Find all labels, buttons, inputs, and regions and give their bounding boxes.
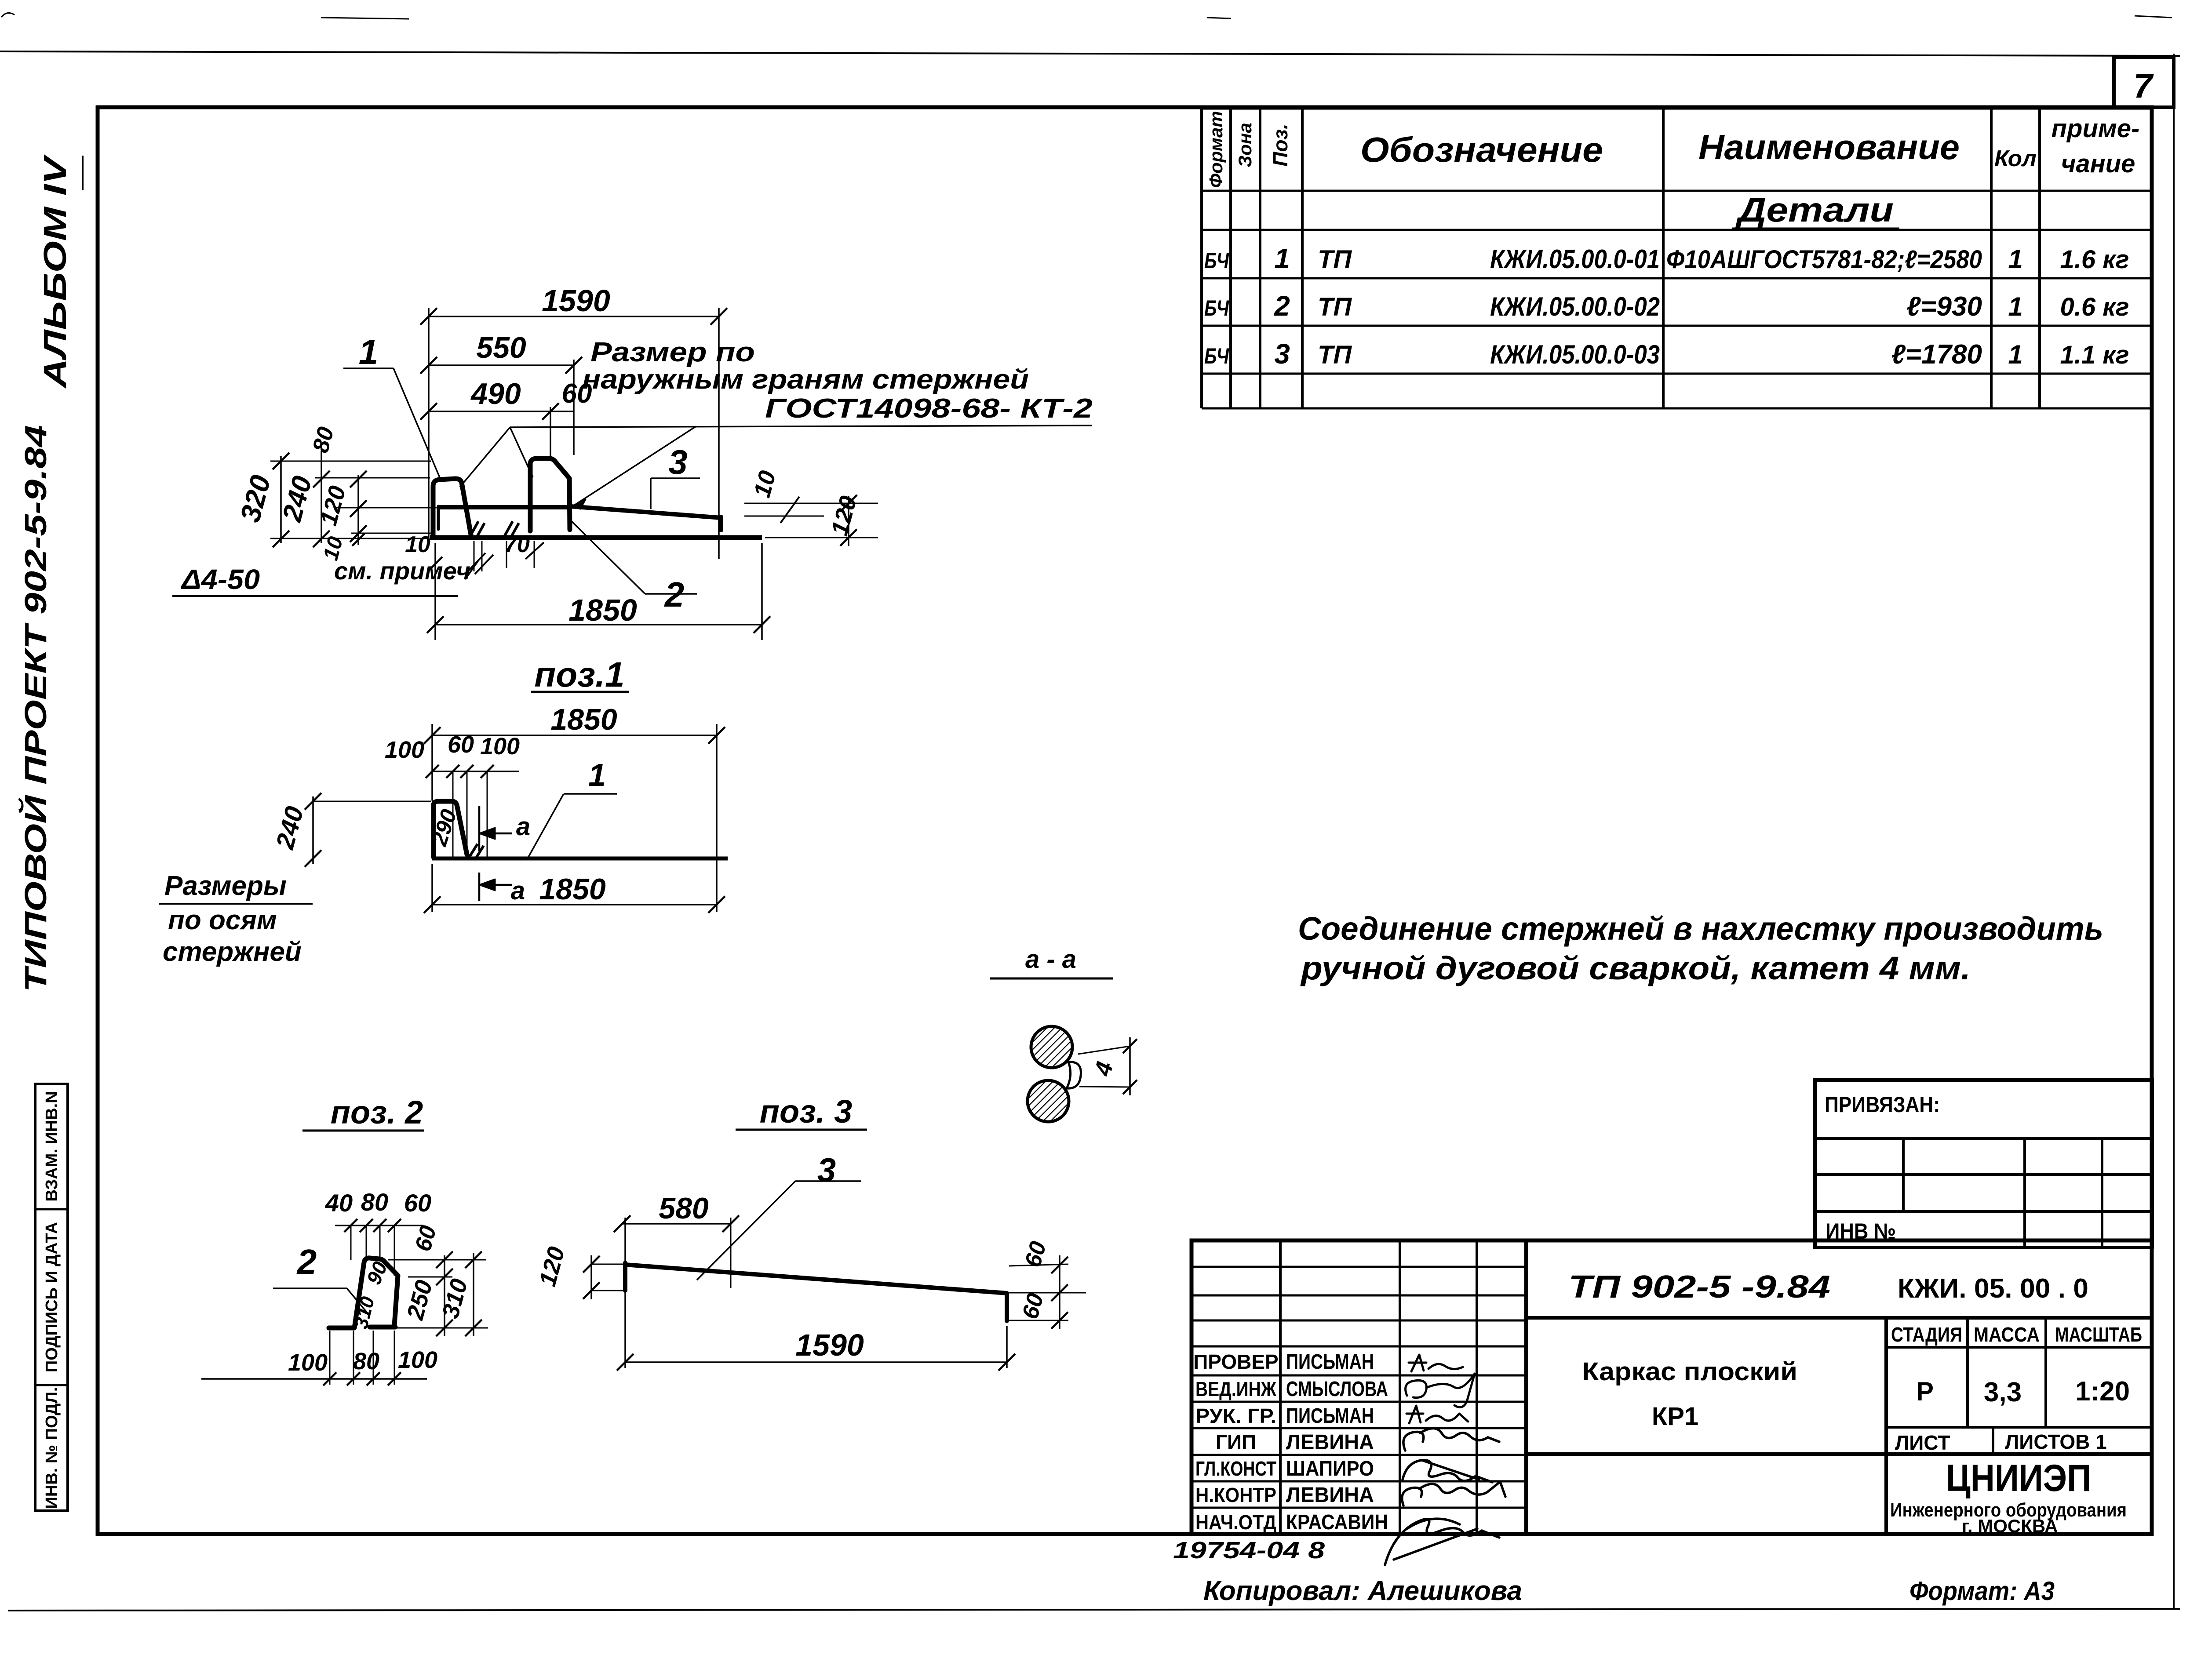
svg-text:ПРОВЕР: ПРОВЕР	[1193, 1350, 1279, 1373]
svg-text:ПРИВЯЗАН:: ПРИВЯЗАН:	[1825, 1092, 1940, 1117]
svg-text:100: 100	[398, 1347, 437, 1373]
svg-text:1850: 1850	[550, 703, 617, 736]
svg-text:Формат: Формат	[1206, 111, 1226, 188]
svg-text:КЖИ.05.00.0-02: КЖИ.05.00.0-02	[1490, 292, 1660, 321]
svg-text:1.6 кг: 1.6 кг	[2060, 245, 2129, 274]
svg-text:Δ4-50: Δ4-50	[181, 564, 260, 595]
svg-text:7: 7	[2133, 66, 2154, 105]
svg-text:Р: Р	[1916, 1377, 1934, 1406]
svg-text:БЧ: БЧ	[1204, 248, 1229, 273]
svg-text:СМЫСЛОВА: СМЫСЛОВА	[1286, 1378, 1388, 1401]
svg-text:стержней: стержней	[163, 937, 302, 967]
svg-text:1850: 1850	[568, 593, 637, 627]
svg-text:Поз.: Поз.	[1269, 124, 1292, 166]
svg-text:КЖИ.05.00.0-01: КЖИ.05.00.0-01	[1490, 244, 1660, 274]
svg-text:3: 3	[817, 1152, 836, 1189]
svg-text:100: 100	[288, 1349, 328, 1376]
svg-text:Обозначение: Обозначение	[1360, 130, 1603, 169]
svg-text:КРАСАВИН: КРАСАВИН	[1286, 1511, 1388, 1534]
svg-text:МАСШТАБ: МАСШТАБ	[2055, 1323, 2142, 1346]
svg-text:см. примеч: см. примеч	[334, 557, 470, 585]
svg-text:а: а	[511, 876, 525, 905]
svg-text:КЖИ. 05. 00 . 0: КЖИ. 05. 00 . 0	[1898, 1273, 2088, 1304]
svg-text:1: 1	[1274, 243, 1290, 274]
svg-text:ЛЕВИНА: ЛЕВИНА	[1286, 1431, 1374, 1454]
svg-text:1: 1	[588, 758, 606, 793]
svg-text:80: 80	[353, 1348, 379, 1375]
svg-text:10: 10	[405, 532, 430, 557]
svg-text:19754-04 8: 19754-04 8	[1173, 1537, 1325, 1564]
svg-text:0.6 кг: 0.6 кг	[2060, 293, 2129, 321]
svg-text:МАССА: МАССА	[1974, 1323, 2040, 1346]
svg-text:100: 100	[480, 733, 520, 760]
svg-text:ПОДПИСЬ И ДАТА: ПОДПИСЬ И ДАТА	[43, 1222, 61, 1372]
svg-text:ШАПИРО: ШАПИРО	[1286, 1457, 1374, 1480]
svg-text:60: 60	[404, 1189, 431, 1217]
svg-text:Кол: Кол	[1994, 146, 2037, 171]
svg-text:Зона: Зона	[1235, 123, 1255, 167]
svg-text:Формат: А3: Формат: А3	[1909, 1576, 2055, 1606]
svg-text:ТП 902-5 -9.84: ТП 902-5 -9.84	[1568, 1269, 1830, 1305]
svg-text:100: 100	[385, 737, 424, 763]
svg-text:наружным граням стержней: наружным граням стержней	[582, 364, 1029, 395]
svg-text:ПИСЬМАН: ПИСЬМАН	[1286, 1404, 1374, 1428]
svg-text:60: 60	[448, 731, 474, 758]
svg-text:приме-: приме-	[2052, 114, 2140, 143]
svg-text:АЛЬБОМ IV: АЛЬБОМ IV	[38, 154, 73, 389]
svg-text:ГИП: ГИП	[1216, 1431, 1256, 1454]
svg-text:1: 1	[2008, 292, 2022, 321]
svg-text:чание: чание	[2061, 149, 2135, 178]
svg-text:КЖИ.05.00.0-03: КЖИ.05.00.0-03	[1490, 340, 1660, 369]
svg-text:ТП: ТП	[1318, 293, 1352, 321]
svg-text:1590: 1590	[795, 1328, 864, 1362]
svg-text:Каркас плоский: Каркас плоский	[1582, 1357, 1797, 1386]
svg-text:ИНВ. № ПОДЛ.: ИНВ. № ПОДЛ.	[43, 1387, 61, 1509]
svg-text:1: 1	[2008, 244, 2022, 274]
svg-text:1.1 кг: 1.1 кг	[2060, 341, 2129, 369]
svg-text:2: 2	[296, 1242, 317, 1281]
svg-text:ГОСТ14098-68- КТ-2: ГОСТ14098-68- КТ-2	[765, 393, 1093, 424]
svg-text:ВЗАМ. ИНВ.N: ВЗАМ. ИНВ.N	[43, 1091, 61, 1201]
svg-text:ручной дуговой сваркой, катет: ручной дуговой сваркой, катет 4 мм.	[1300, 950, 1971, 986]
svg-text:ℓ=1780: ℓ=1780	[1891, 339, 1982, 370]
svg-text:ЛЕВИНА: ЛЕВИНА	[1286, 1484, 1374, 1507]
svg-text:Размер по: Размер по	[590, 337, 755, 367]
svg-text:ТП: ТП	[1318, 245, 1352, 274]
svg-text:а - а: а - а	[1025, 945, 1076, 974]
svg-text:Соединение стержней в нахлестк: Соединение стержней в нахлестку производ…	[1298, 910, 2103, 947]
svg-text:Н.КОНТР: Н.КОНТР	[1195, 1484, 1276, 1506]
svg-text:3: 3	[1274, 338, 1290, 370]
svg-text:1590: 1590	[542, 284, 610, 318]
svg-text:1: 1	[359, 332, 379, 371]
svg-text:СТАДИЯ: СТАДИЯ	[1891, 1323, 1962, 1346]
svg-text:490: 490	[470, 377, 521, 411]
svg-text:РУК. ГР.: РУК. ГР.	[1195, 1404, 1276, 1427]
svg-text:ЦНИИЭП: ЦНИИЭП	[1946, 1457, 2091, 1499]
svg-text:поз. 2: поз. 2	[331, 1094, 423, 1131]
svg-text:Ф10АШГОСТ5781-82;ℓ=2580: Ф10АШГОСТ5781-82;ℓ=2580	[1666, 245, 1982, 274]
svg-text:поз. 3: поз. 3	[760, 1093, 852, 1130]
svg-text:ГЛ.КОНСТ: ГЛ.КОНСТ	[1195, 1457, 1276, 1480]
svg-text:40: 40	[325, 1189, 353, 1217]
svg-text:ℓ=930: ℓ=930	[1906, 291, 1982, 322]
svg-text:г. МОСКВА: г. МОСКВА	[1962, 1516, 2058, 1536]
svg-text:70: 70	[504, 532, 530, 557]
svg-text:Размеры: Размеры	[164, 871, 287, 901]
svg-text:НАЧ.ОТД: НАЧ.ОТД	[1195, 1511, 1276, 1534]
svg-text:1850: 1850	[539, 873, 605, 906]
svg-text:БЧ: БЧ	[1204, 296, 1229, 320]
svg-text:550: 550	[476, 331, 526, 364]
svg-text:ТП: ТП	[1318, 341, 1352, 369]
svg-text:БЧ: БЧ	[1204, 344, 1229, 368]
svg-text:3,3: 3,3	[1984, 1377, 2022, 1407]
svg-text:580: 580	[659, 1192, 709, 1225]
svg-text:ТИПОВОЙ ПРОЕКТ 902-5-9.84: ТИПОВОЙ ПРОЕКТ 902-5-9.84	[18, 425, 53, 992]
svg-text:поз.1: поз.1	[534, 655, 624, 694]
svg-text:Наименование: Наименование	[1698, 127, 1960, 167]
svg-text:по осям: по осям	[168, 905, 277, 935]
svg-text:Копировал: Алешикова: Копировал: Алешикова	[1203, 1576, 1522, 1606]
svg-text:Детали: Детали	[1735, 190, 1894, 229]
svg-text:ПИСЬМАН: ПИСЬМАН	[1286, 1350, 1374, 1374]
svg-text:а: а	[516, 812, 530, 841]
svg-text:3: 3	[668, 443, 687, 481]
svg-text:80: 80	[361, 1188, 388, 1216]
svg-text:1: 1	[2008, 340, 2022, 369]
svg-text:1:20: 1:20	[2075, 1376, 2130, 1407]
svg-text:КР1: КР1	[1652, 1402, 1698, 1431]
svg-text:2: 2	[1274, 290, 1290, 322]
svg-text:ВЕД.ИНЖ: ВЕД.ИНЖ	[1195, 1378, 1276, 1400]
svg-text:ЛИСТ: ЛИСТ	[1895, 1431, 1950, 1454]
svg-text:ЛИСТОВ 1: ЛИСТОВ 1	[2005, 1430, 2107, 1453]
